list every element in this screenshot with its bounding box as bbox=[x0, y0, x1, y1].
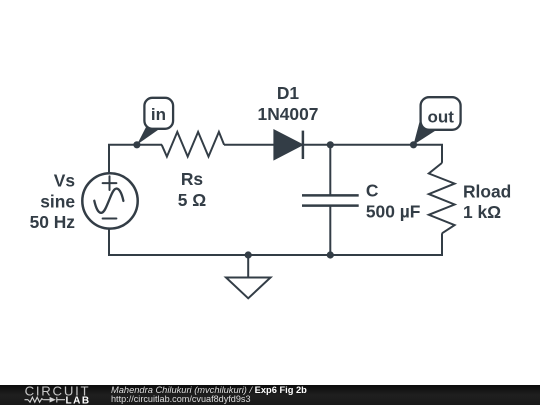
node junction dot at in bbox=[133, 141, 140, 148]
capacitor C bbox=[302, 195, 359, 205]
svg-text:out: out bbox=[427, 107, 454, 126]
diode D1 bbox=[274, 131, 303, 159]
svg-text:1N4007: 1N4007 bbox=[258, 104, 319, 124]
svg-text:500 µF: 500 µF bbox=[366, 201, 421, 221]
svg-text:http://circuitlab.com/cvuaf8dy: http://circuitlab.com/cvuaf8dyfd9s3 bbox=[111, 394, 251, 404]
node junction dot ground bbox=[245, 251, 252, 258]
resistor Rload bbox=[429, 163, 455, 233]
node junction dot capacitor top bbox=[327, 141, 334, 148]
node in flag bbox=[137, 98, 173, 145]
node out flag bbox=[414, 97, 461, 145]
voltage source Vs bbox=[82, 173, 137, 228]
wire diode to top-right corner bbox=[303, 145, 442, 163]
svg-text:50 Hz: 50 Hz bbox=[30, 212, 76, 232]
wire bottom rail with corners bbox=[109, 229, 442, 255]
svg-text:Vs: Vs bbox=[54, 171, 75, 191]
wire resistor to diode bbox=[224, 144, 274, 146]
node junction dot capacitor bottom bbox=[327, 251, 334, 258]
svg-text:1 kΩ: 1 kΩ bbox=[463, 202, 501, 222]
footer bar bbox=[0, 385, 540, 405]
node junction dot at out bbox=[410, 141, 417, 148]
wire capacitor top lead bbox=[329, 145, 331, 195]
svg-text:LAB: LAB bbox=[66, 396, 91, 405]
CircuitLab logo bbox=[25, 384, 91, 405]
svg-text:Rload: Rload bbox=[463, 182, 511, 202]
svg-text:5 Ω: 5 Ω bbox=[178, 190, 207, 210]
svg-text:sine: sine bbox=[40, 191, 75, 211]
ground bbox=[226, 255, 271, 298]
svg-text:D1: D1 bbox=[277, 83, 300, 103]
wire capacitor bottom lead bbox=[329, 206, 331, 255]
svg-text:in: in bbox=[151, 105, 166, 124]
svg-text:C: C bbox=[366, 181, 379, 201]
svg-text:Rs: Rs bbox=[181, 169, 203, 189]
resistor Rs bbox=[162, 132, 224, 157]
wire top-left corner bbox=[109, 145, 162, 173]
